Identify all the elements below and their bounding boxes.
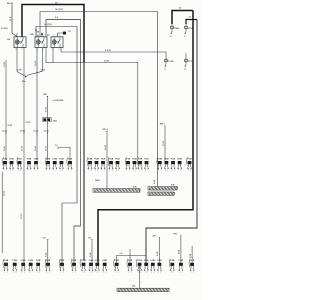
svg-text:1,0 B: 1,0 B <box>4 62 6 67</box>
svg-text:MA: MA <box>44 93 48 96</box>
svg-text:B6-1B: B6-1B <box>7 3 14 5</box>
svg-text:1-5: 1-5 <box>68 31 71 33</box>
svg-text:57-26: 57-26 <box>44 130 49 132</box>
svg-text:0,5 B: 0,5 B <box>22 146 24 151</box>
svg-text:7: 7 <box>84 272 85 274</box>
svg-text:7: 7 <box>158 272 159 274</box>
svg-text:F/2B: F/2B <box>3 159 8 161</box>
svg-text:7: 7 <box>60 170 61 172</box>
svg-text:F/2B: F/2B <box>46 260 51 262</box>
svg-text:14-1(15): 14-1(15) <box>44 23 52 26</box>
svg-text:0,5 B: 0,5 B <box>35 146 37 151</box>
svg-text:7: 7 <box>115 272 116 274</box>
svg-text:7: 7 <box>53 170 54 172</box>
svg-text:F/2B: F/2B <box>59 159 64 161</box>
svg-text:0,5 B: 0,5 B <box>17 70 22 72</box>
svg-text:7: 7 <box>129 170 130 172</box>
svg-text:7: 7 <box>49 170 50 172</box>
svg-text:F/2B: F/2B <box>177 159 182 161</box>
svg-text:0,5 W: 0,5 W <box>104 60 109 62</box>
svg-text:F/2B: F/2B <box>144 260 149 262</box>
svg-text:(+)0,5B 2064: (+)0,5B 2064 <box>53 99 64 102</box>
svg-text:4/2: 4/2 <box>47 34 50 37</box>
svg-text:F/2B: F/2B <box>138 159 143 161</box>
svg-text:F/2B: F/2B <box>60 260 65 262</box>
svg-text:0,5 B: 0,5 B <box>4 146 6 151</box>
svg-text:0,75 B: 0,75 B <box>105 50 111 52</box>
svg-text:7: 7 <box>92 272 93 274</box>
svg-text:F/2B: F/2B <box>190 260 195 262</box>
svg-text:1/7: 1/7 <box>184 36 186 38</box>
svg-text:7: 7 <box>30 170 31 172</box>
svg-text:7: 7 <box>22 272 23 274</box>
svg-text:7: 7 <box>91 170 92 172</box>
svg-text:F/2B: F/2B <box>34 159 39 161</box>
svg-text:F30A: F30A <box>174 27 179 30</box>
svg-text:27-26: 27-26 <box>26 122 31 124</box>
svg-text:7: 7 <box>104 170 105 172</box>
svg-text:F15A: F15A <box>188 27 193 30</box>
svg-text:7: 7 <box>6 170 7 172</box>
svg-text:1/7: 1/7 <box>170 36 172 38</box>
svg-text:0,5 B: 0,5 B <box>4 191 6 196</box>
svg-text:F/2B: F/2B <box>115 159 120 161</box>
svg-text:07-26: 07-26 <box>34 130 39 132</box>
svg-text:2402: 2402 <box>53 119 57 122</box>
svg-text:7: 7 <box>20 170 21 172</box>
svg-text:F/2B: F/2B <box>81 260 86 262</box>
svg-text:0,5B: 0,5B <box>46 252 48 257</box>
svg-text:7: 7 <box>37 170 38 172</box>
svg-text:G31: G31 <box>132 285 135 287</box>
svg-text:0,5 B: 0,5 B <box>45 107 47 112</box>
svg-text:1,0 R: 1,0 R <box>10 16 12 21</box>
svg-text:1,0 B-R: 1,0 B-R <box>1 28 8 30</box>
svg-text:F/2B: F/2B <box>27 159 32 161</box>
svg-text:7: 7 <box>131 272 132 274</box>
svg-text:27-2A: 27-2A <box>2 129 8 132</box>
svg-text:0,5 B: 0,5 B <box>105 145 107 150</box>
svg-text:SPL-1: SPL-1 <box>160 124 165 126</box>
svg-text:27-24: 27-24 <box>8 124 13 127</box>
svg-text:0,5B: 0,5B <box>90 252 92 257</box>
svg-text:F/2B: F/2B <box>151 260 156 262</box>
svg-text:1/7: 1/7 <box>184 69 186 71</box>
svg-text:F/2B: F/2B <box>36 260 41 262</box>
svg-text:F/2B: F/2B <box>4 260 9 262</box>
svg-text:7: 7 <box>141 170 142 172</box>
svg-text:7: 7 <box>13 272 14 274</box>
svg-text:F/2B: F/2B <box>89 260 94 262</box>
svg-text:F/2B: F/2B <box>94 159 99 161</box>
svg-text:F/2B: F/2B <box>158 159 163 161</box>
svg-text:7: 7 <box>135 170 136 172</box>
svg-text:7: 7 <box>75 272 76 274</box>
svg-text:F/2B: F/2B <box>12 260 17 262</box>
svg-text:14-1(15): 14-1(15) <box>55 8 63 11</box>
svg-text:7: 7 <box>154 272 155 274</box>
svg-text:1/7: 1/7 <box>164 69 166 71</box>
svg-text:7: 7 <box>145 272 146 274</box>
svg-text:7: 7 <box>190 170 191 172</box>
svg-text:F/2B: F/2B <box>170 260 175 262</box>
svg-text:0,5B: 0,5B <box>190 253 192 258</box>
svg-text:0,5 B: 0,5 B <box>163 141 165 146</box>
svg-text:7: 7 <box>49 272 50 274</box>
svg-text:0,5B-1: 0,5B-1 <box>95 180 100 182</box>
svg-text:7: 7 <box>71 170 72 172</box>
svg-text:7: 7 <box>112 170 113 172</box>
svg-text:7: 7 <box>7 272 8 274</box>
svg-text:7: 7 <box>103 272 104 274</box>
svg-text:F/2B: F/2B <box>95 260 100 262</box>
svg-text:F7,5A: F7,5A <box>188 60 194 63</box>
svg-text:7: 7 <box>179 272 180 274</box>
svg-text:7: 7 <box>118 170 119 172</box>
svg-text:0,5B: 0,5B <box>157 251 159 256</box>
svg-text:7: 7 <box>165 170 166 172</box>
svg-text:1-5: 1-5 <box>55 145 58 147</box>
svg-text:7: 7 <box>174 170 175 172</box>
svg-text:F/2B: F/2B <box>88 159 93 161</box>
svg-text:0,5 B: 0,5 B <box>46 146 48 151</box>
svg-text:1,0 B: 1,0 B <box>35 61 37 66</box>
svg-text:F/2B: F/2B <box>157 260 162 262</box>
svg-text:7: 7 <box>97 170 98 172</box>
svg-text:F/2B: F/2B <box>114 260 119 262</box>
svg-text:27-2B: 27-2B <box>20 130 26 132</box>
svg-text:7: 7 <box>173 272 174 274</box>
svg-text:F/2B: F/2B <box>187 159 192 161</box>
svg-text:0,5B: 0,5B <box>154 179 156 184</box>
svg-text:1: 1 <box>141 282 142 284</box>
svg-text:SPL-2: SPL-2 <box>103 129 108 131</box>
svg-text:0,5B: 0,5B <box>179 249 181 254</box>
svg-text:F/2B: F/2B <box>128 260 133 262</box>
svg-text:1-5: 1-5 <box>120 253 123 255</box>
svg-text:F/2B: F/2B <box>28 260 33 262</box>
svg-text:7: 7 <box>98 272 99 274</box>
svg-text:F/2B: F/2B <box>132 159 137 161</box>
svg-text:F/2B: F/2B <box>109 159 114 161</box>
svg-text:F/2B: F/2B <box>102 260 107 262</box>
svg-text:F/2B: F/2B <box>21 260 26 262</box>
svg-text:F/2B: F/2B <box>137 260 142 262</box>
svg-text:0,5 B: 0,5 B <box>41 70 46 72</box>
svg-text:F/2B: F/2B <box>179 260 184 262</box>
svg-text:7: 7 <box>147 170 148 172</box>
svg-text:7: 7 <box>63 272 64 274</box>
svg-text:7: 7 <box>12 170 13 172</box>
svg-text:F7,5A: F7,5A <box>168 60 174 63</box>
svg-text:7: 7 <box>29 272 30 274</box>
svg-text:F/2B: F/2B <box>9 159 14 161</box>
svg-text:7: 7 <box>161 170 162 172</box>
svg-text:F/2B: F/2B <box>52 159 57 161</box>
svg-text:F/2B: F/2B <box>72 260 77 262</box>
svg-text:F/2B: F/2B <box>164 159 169 161</box>
svg-text:1,0 B: 1,0 B <box>21 214 23 219</box>
svg-text:4/8: 4/8 <box>37 31 40 34</box>
